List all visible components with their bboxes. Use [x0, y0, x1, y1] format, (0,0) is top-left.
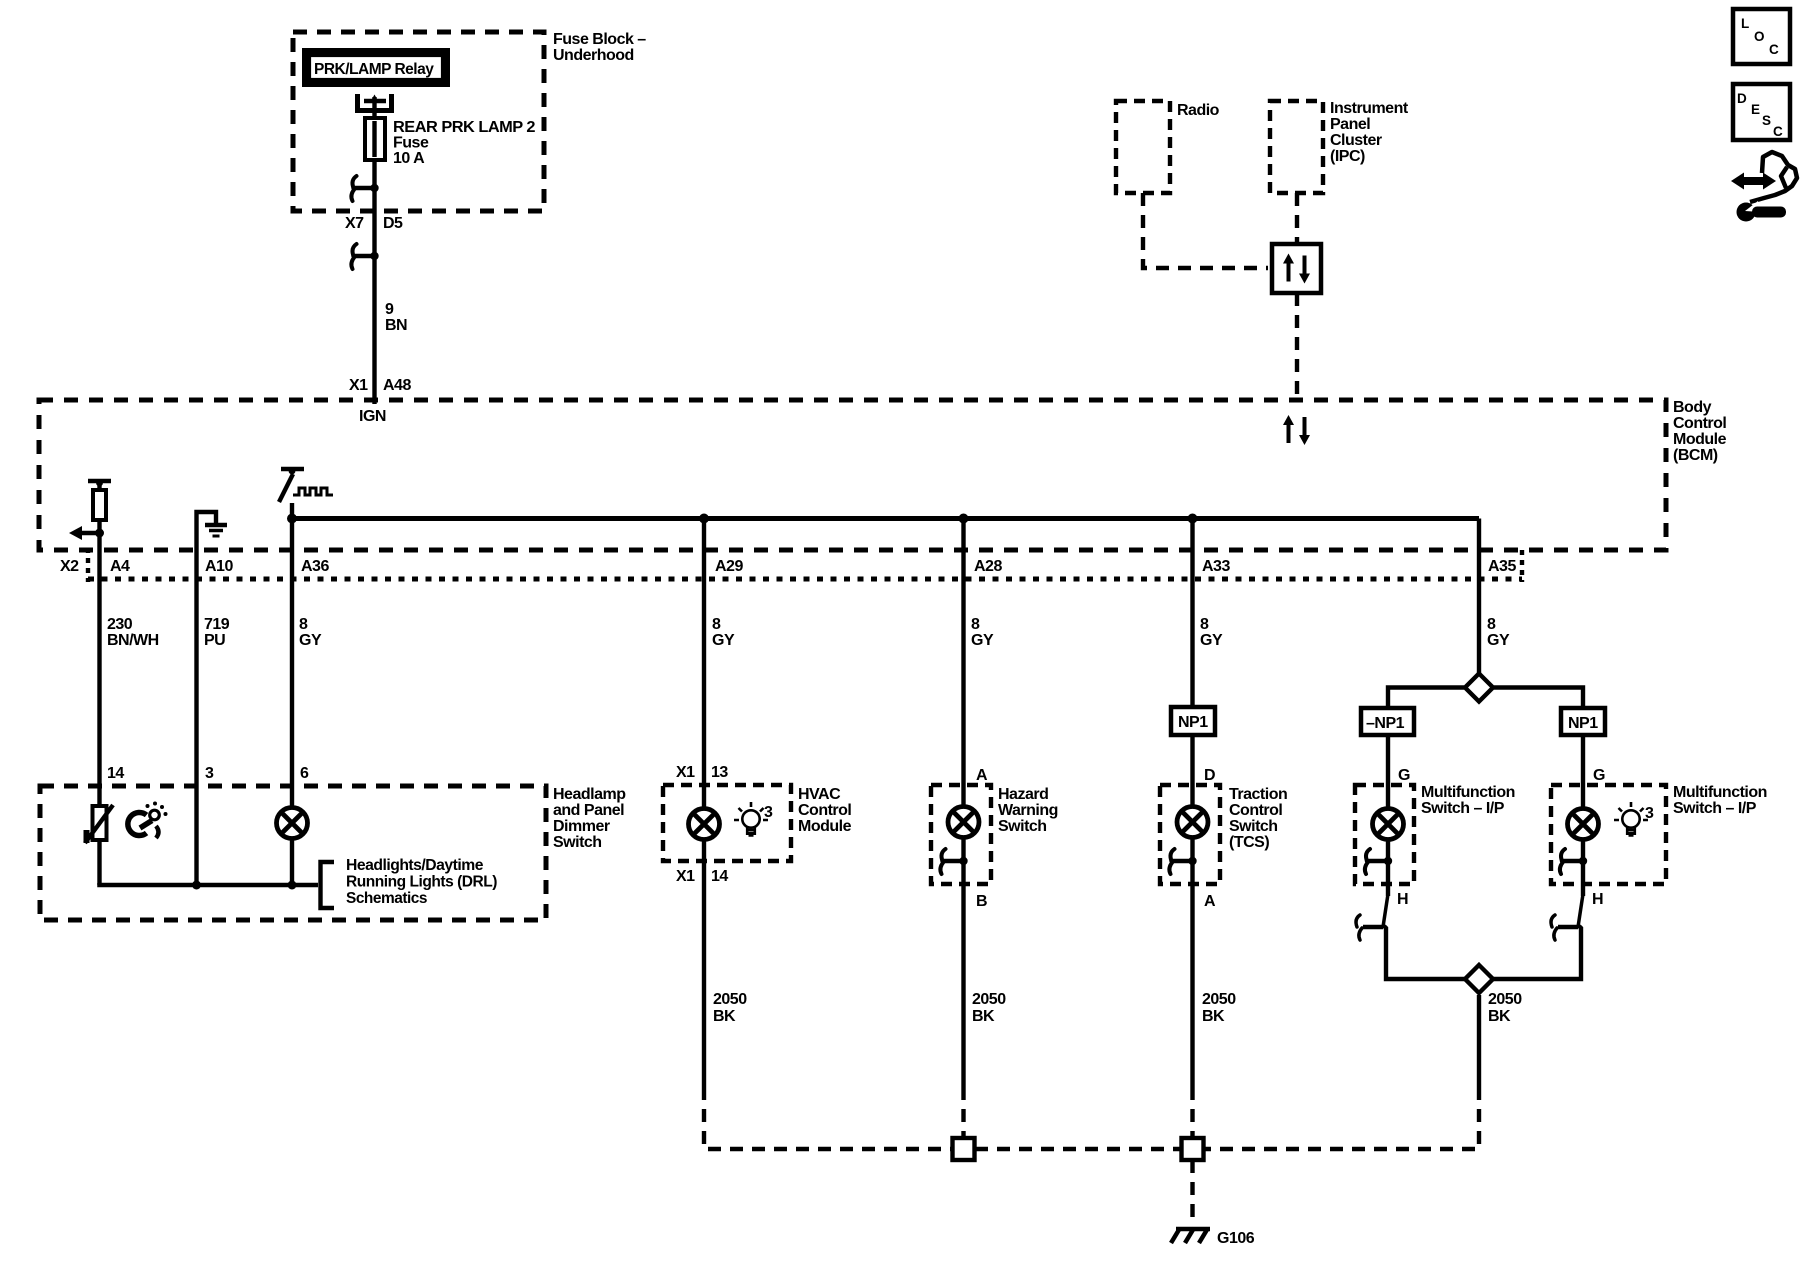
- svg-text:A: A: [976, 767, 988, 784]
- svg-text:NP1: NP1: [1568, 715, 1598, 732]
- svg-text:Warning: Warning: [998, 802, 1058, 819]
- svg-text:X1: X1: [676, 868, 695, 885]
- wire A4 to headlamp switch: [97, 580, 101, 806]
- svg-text:BN: BN: [385, 317, 407, 334]
- label: Headlights/Daytime Running Lights (DRL) Schematics: [346, 857, 497, 907]
- wire label: 9 BN: [385, 301, 407, 334]
- svg-text:Multifunction: Multifunction: [1421, 784, 1515, 801]
- label: Headlamp and Panel Dimmer Switch: [553, 786, 626, 851]
- wire label: 8 GY (A29): [712, 616, 735, 649]
- svg-text:Module: Module: [798, 818, 852, 835]
- svg-text:(IPC): (IPC): [1330, 148, 1365, 165]
- relay K: PRK/LAMP Relay: [306, 52, 447, 84]
- svg-text:Radio: Radio: [1177, 102, 1220, 119]
- label: Radio: [1177, 102, 1220, 119]
- pin labels X1 13 HVAC: [676, 764, 728, 781]
- wire relay to fuse: [372, 97, 376, 118]
- svg-text:GY: GY: [1200, 632, 1223, 649]
- relay contact terminal symbol: [358, 94, 392, 111]
- fuse F: REAR PRK LAMP 2 10A: [365, 118, 385, 160]
- svg-text:and Panel: and Panel: [553, 802, 624, 819]
- svg-text:Headlamp: Headlamp: [553, 786, 626, 803]
- svg-text:3: 3: [205, 765, 214, 782]
- svg-text:Control: Control: [1673, 415, 1726, 432]
- svg-text:A36: A36: [301, 558, 329, 575]
- wire fuse to connector clip: [372, 160, 376, 224]
- svg-text:2050: 2050: [972, 991, 1006, 1008]
- illumination bulb icon MF right: [1614, 802, 1654, 836]
- connector pin labels row: [60, 558, 1516, 575]
- junction node at A29: [699, 514, 709, 524]
- svg-text:A: A: [1204, 893, 1216, 910]
- svg-text:Running Lights (DRL): Running Lights (DRL): [346, 874, 497, 891]
- connector labels X7 D5: [345, 215, 403, 232]
- svg-text:D: D: [1737, 91, 1747, 106]
- svg-text:Switch: Switch: [553, 834, 602, 851]
- wire label: 719 PU: [204, 616, 230, 649]
- svg-text:H: H: [1397, 891, 1408, 908]
- svg-text:IGN: IGN: [359, 408, 386, 425]
- svg-text:A29: A29: [715, 558, 743, 575]
- wire HVAC down: [702, 839, 706, 1087]
- pin label A hazard: [976, 767, 988, 784]
- dashed ground wire hazard: [961, 1087, 965, 1138]
- wire label 2050 BK (TCS): [1202, 991, 1236, 1025]
- svg-text:13: 13: [711, 764, 728, 781]
- radio module box: [1116, 101, 1170, 193]
- svg-text:X1: X1: [349, 377, 368, 394]
- svg-text:Control: Control: [1229, 802, 1282, 819]
- svg-text:BK: BK: [1202, 1008, 1225, 1025]
- wire NP1 to MF right box: [1581, 735, 1585, 809]
- lamp L6 in MF right: [1568, 809, 1599, 885]
- lamp L1 in headlamp switch: [277, 808, 308, 886]
- serial data link box U1: [1272, 244, 1321, 293]
- svg-text:BK: BK: [713, 1008, 736, 1025]
- svg-text:D5: D5: [383, 215, 403, 232]
- NP1 box at A33: [1171, 707, 1215, 735]
- svg-text:8: 8: [1487, 616, 1496, 633]
- wire A28 to hazard switch: [961, 519, 965, 809]
- dashed wire to ground G106: [1190, 1160, 1194, 1226]
- wire hazard down: [961, 884, 965, 1087]
- label: G106: [1217, 1230, 1255, 1247]
- connector labels X1 A48: [349, 377, 411, 394]
- lamp L3 in hazard switch: [948, 807, 979, 885]
- wire label 2050 BK (hazard): [972, 991, 1006, 1025]
- pin label G right: [1593, 767, 1605, 784]
- svg-text:(BCM): (BCM): [1673, 447, 1718, 464]
- svg-text:8: 8: [712, 616, 721, 633]
- svg-text:GY: GY: [1487, 632, 1510, 649]
- svg-text:Fuse: Fuse: [393, 135, 429, 152]
- wire diamond to 2050 BK: [1477, 995, 1481, 1087]
- wire MF right to bottom: [1493, 926, 1581, 979]
- svg-text:G106: G106: [1217, 1230, 1255, 1247]
- svg-text:Schematics: Schematics: [346, 890, 428, 907]
- terminal clip in TCS: [1169, 849, 1196, 874]
- wire label: 8 GY (A28): [971, 616, 994, 649]
- wire A33 to TCS: [1190, 519, 1194, 809]
- wire MF left to bottom: [1384, 926, 1465, 979]
- svg-text:9: 9: [385, 301, 394, 318]
- body control module BCM box: [39, 400, 1666, 550]
- svg-text:B: B: [976, 893, 987, 910]
- svg-text:3: 3: [1645, 805, 1654, 822]
- svg-text:Fuse Block –: Fuse Block –: [553, 31, 646, 48]
- inline clip below MF left: [1356, 884, 1388, 940]
- wire A36 to headlamp switch: [290, 580, 294, 808]
- multifunction switch left box: [1355, 785, 1414, 884]
- svg-text:Instrument: Instrument: [1330, 100, 1409, 117]
- pin labels 14 3 6 headlamp switch: [107, 765, 309, 782]
- svg-text:8: 8: [299, 616, 308, 633]
- svg-text:H: H: [1592, 891, 1603, 908]
- DESC legend box: [1733, 84, 1790, 140]
- svg-text:S: S: [1762, 113, 1771, 128]
- pin label G left: [1398, 767, 1410, 784]
- instrument panel cluster box: [1270, 101, 1323, 193]
- pin label A TCS: [1204, 893, 1216, 910]
- svg-text:8: 8: [1200, 616, 1209, 633]
- svg-text:2050: 2050: [713, 991, 747, 1008]
- svg-text:A48: A48: [383, 377, 411, 394]
- svg-text:BK: BK: [972, 1008, 995, 1025]
- wire A10 to headlamp switch: [194, 580, 198, 885]
- svg-text:3: 3: [764, 804, 773, 821]
- lamp L5 in MF left: [1373, 809, 1404, 885]
- splice square S2: [1182, 1138, 1204, 1160]
- svg-text:Dimmer: Dimmer: [553, 818, 610, 835]
- svg-text:E: E: [1751, 102, 1760, 117]
- wire NP1 to MF left box: [1386, 735, 1390, 809]
- NP1 box right multifunction: [1561, 708, 1605, 735]
- LOC legend box: [1733, 9, 1790, 64]
- svg-text:8: 8: [971, 616, 980, 633]
- label: REAR PRK LAMP 2 Fuse 10 A: [393, 119, 536, 167]
- label: Hazard Warning Switch: [998, 786, 1058, 835]
- svg-text:GY: GY: [712, 632, 735, 649]
- pin label H right: [1592, 891, 1603, 908]
- svg-text:2050: 2050: [1488, 991, 1522, 1008]
- dashed ground wire HVAC: [704, 1087, 952, 1149]
- dashed ground bus middle: [975, 1147, 1181, 1151]
- svg-text:D: D: [1204, 767, 1215, 784]
- svg-text:Headlights/Daytime: Headlights/Daytime: [346, 857, 484, 874]
- dashed ground wire MF: [1204, 1087, 1479, 1149]
- pin label B hazard: [976, 893, 987, 910]
- svg-text:719: 719: [204, 616, 230, 633]
- svg-text:X1: X1: [676, 764, 695, 781]
- label: Traction Control Switch (TCS): [1229, 786, 1287, 851]
- svg-text:A4: A4: [110, 558, 130, 575]
- headlamp and panel dimmer switch box: [40, 786, 546, 920]
- wire diamond to right branch: [1494, 688, 1583, 709]
- HVAC control module box: [663, 785, 791, 861]
- svg-text:C: C: [1769, 42, 1779, 57]
- svg-text:GY: GY: [299, 632, 322, 649]
- splice diamond top: [1465, 674, 1493, 702]
- svg-text:A28: A28: [974, 558, 1002, 575]
- label: Multifunction Switch - I/P left: [1421, 784, 1515, 817]
- svg-text:X7: X7: [345, 215, 364, 232]
- label: HVAC Control Module: [798, 786, 852, 835]
- PWM dimmer switch in BCM at A36: [279, 468, 333, 580]
- wire label: 230 BN/WH: [107, 616, 159, 649]
- label: Fuse Block - Underhood: [553, 31, 646, 64]
- connector clip C2 below fuse block: [351, 244, 378, 269]
- multifunction switch right box: [1551, 785, 1666, 884]
- node IGN: [359, 408, 386, 425]
- output arrow at A4: [69, 526, 104, 540]
- svg-text:Traction: Traction: [1229, 786, 1287, 803]
- wire label 2050 BK (MF): [1488, 991, 1522, 1025]
- svg-text:Multifunction: Multifunction: [1673, 784, 1767, 801]
- svg-text:Cluster: Cluster: [1330, 132, 1382, 149]
- legend icon arrows and wrench: [1731, 152, 1797, 222]
- ground symbol in BCM at A10: [197, 512, 228, 580]
- fuse block underhood box: [293, 32, 544, 211]
- wire A35 down to diamond: [1477, 519, 1481, 674]
- svg-text:Switch: Switch: [998, 818, 1047, 835]
- traction control switch box: [1160, 785, 1220, 884]
- svg-text:Body: Body: [1673, 399, 1712, 416]
- svg-text:C: C: [1773, 124, 1783, 139]
- svg-text:6: 6: [300, 765, 309, 782]
- pin label D TCS: [1204, 767, 1215, 784]
- svg-text:Switch – I/P: Switch – I/P: [1673, 800, 1757, 817]
- svg-text:NP1: NP1: [1178, 714, 1208, 731]
- splice diamond bottom: [1465, 965, 1493, 993]
- svg-text:A10: A10: [205, 558, 233, 575]
- dashed wire radio to serial data box: [1143, 193, 1268, 268]
- junction node at A28: [959, 514, 969, 524]
- inline clip below MF right: [1551, 884, 1583, 940]
- dashed ground wire TCS: [1190, 1087, 1194, 1138]
- svg-text:Underhood: Underhood: [553, 47, 634, 64]
- svg-text:Hazard: Hazard: [998, 786, 1048, 803]
- svg-text:REAR PRK LAMP 2: REAR PRK LAMP 2: [393, 119, 536, 136]
- pin labels X1 14 below HVAC: [676, 868, 728, 885]
- lamp L4 in TCS: [1177, 807, 1208, 885]
- connector band dotted line: [88, 548, 1522, 582]
- svg-text:Panel: Panel: [1330, 116, 1370, 133]
- bus wire from switch to A35: [287, 514, 1479, 524]
- svg-text:G: G: [1593, 767, 1605, 784]
- svg-text:Switch: Switch: [1229, 818, 1278, 835]
- pin label H left: [1397, 891, 1408, 908]
- rheostat (variable resistor): [84, 805, 114, 843]
- wire label: 8 GY (A33): [1200, 616, 1223, 649]
- svg-text:L: L: [1741, 16, 1749, 31]
- wire A29 to HVAC: [702, 519, 706, 810]
- svg-text:X2: X2: [60, 558, 79, 575]
- svg-text:14: 14: [107, 765, 124, 782]
- wire TCS down: [1190, 884, 1194, 1087]
- off-page bracket to DRL schematics: [321, 862, 335, 908]
- terminal clip in MF right: [1560, 849, 1587, 874]
- dashed wire IPC to serial data box: [1295, 193, 1299, 244]
- illumination bulb icon HVAC: [734, 802, 773, 836]
- wire rheostat to common: [97, 840, 101, 885]
- terminal clip in hazard switch: [940, 849, 967, 874]
- terminal clip in MF left: [1365, 849, 1392, 874]
- svg-text:(TCS): (TCS): [1229, 834, 1269, 851]
- lamp L2 in HVAC: [689, 809, 720, 840]
- svg-text:HVAC: HVAC: [798, 786, 841, 803]
- svg-text:14: 14: [711, 868, 728, 885]
- hazard warning switch box: [931, 785, 991, 884]
- label: Instrument Panel Cluster (IPC): [1330, 100, 1409, 165]
- label: Body Control Module (BCM): [1673, 399, 1727, 464]
- wire label: 8 GY (A36): [299, 616, 322, 649]
- svg-text:O: O: [1754, 29, 1764, 44]
- svg-text:Module: Module: [1673, 431, 1727, 448]
- common wire in headlamp switch: [100, 881, 319, 890]
- svg-text:PU: PU: [204, 632, 225, 649]
- junction node at A33: [1188, 514, 1198, 524]
- svg-text:230: 230: [107, 616, 133, 633]
- svg-text:BN/WH: BN/WH: [107, 632, 159, 649]
- serial data arrows at BCM: [1283, 415, 1310, 445]
- svg-text:Switch – I/P: Switch – I/P: [1421, 800, 1505, 817]
- svg-text:10 A: 10 A: [393, 150, 425, 167]
- svg-text:PRK/LAMP Relay: PRK/LAMP Relay: [314, 61, 434, 78]
- ground G106 symbol: [1171, 1228, 1210, 1243]
- dashed wire serial box to BCM: [1295, 293, 1299, 400]
- svg-text:Control: Control: [798, 802, 851, 819]
- wire diamond to left branch: [1388, 688, 1464, 709]
- -NP1 box left multifunction: [1361, 708, 1414, 735]
- wire label: 8 GY (A35): [1487, 616, 1510, 649]
- svg-text:GY: GY: [971, 632, 994, 649]
- wire X7 to clip C2: [372, 224, 376, 404]
- svg-text:G: G: [1398, 767, 1410, 784]
- panel dimmer gauge icon: [128, 802, 168, 839]
- svg-text:A33: A33: [1202, 558, 1230, 575]
- svg-text:A35: A35: [1488, 558, 1516, 575]
- splice square S1: [953, 1138, 975, 1160]
- wire label 2050 BK (HVAC): [713, 991, 747, 1025]
- svg-text:BK: BK: [1488, 1008, 1511, 1025]
- connector clip C1 inside fuse block: [351, 176, 378, 201]
- svg-text:–NP1: –NP1: [1366, 715, 1405, 732]
- svg-text:2050: 2050: [1202, 991, 1236, 1008]
- resistor R1 in BCM: [88, 480, 111, 580]
- label: Multifunction Switch - I/P right: [1673, 784, 1767, 817]
